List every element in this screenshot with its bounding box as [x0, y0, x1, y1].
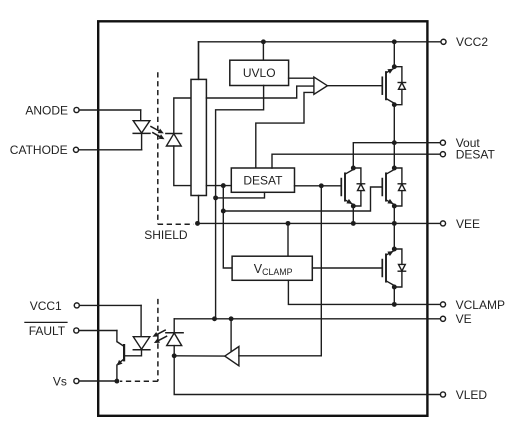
wire DESAT branch down to inverter	[320, 186, 322, 356]
node junction Vout rail	[392, 140, 397, 145]
node junction M3 gate line	[221, 209, 226, 214]
wire VE rail	[174, 318, 440, 320]
transistor Q1 fault output	[123, 344, 125, 361]
DESAT block	[231, 168, 294, 192]
MOSFET M4 clamp	[382, 247, 405, 290]
wire M1 drain	[393, 42, 395, 67]
amplifier block U1	[191, 79, 206, 195]
node junction VE to UVLO line	[212, 316, 217, 321]
pin FAULT	[74, 328, 79, 333]
MOSFET M2 desat pull-down	[341, 166, 364, 209]
wire DESAT bottom stub	[216, 192, 265, 198]
pin DESAT	[440, 152, 445, 157]
inverter U3	[225, 347, 239, 366]
svg-text:VEE: VEE	[456, 217, 480, 231]
MOSFET M3 pull-down	[382, 166, 405, 209]
pin VEE	[440, 221, 445, 226]
LED D1 input LED	[133, 121, 150, 133]
wire buffer U2 output to M1 gate	[327, 85, 382, 87]
svg-text:ANODE: ANODE	[25, 103, 68, 117]
wire PD2 to Q1 base	[125, 350, 141, 356]
svg-text:VLED: VLED	[456, 388, 488, 402]
svg-text:CATHODE: CATHODE	[10, 143, 68, 157]
wire VE to LED2	[173, 319, 175, 333]
node junction Vs emitter	[114, 379, 119, 384]
node junction top rail to M1	[392, 39, 397, 44]
shield dashed line lower	[157, 299, 159, 381]
svg-text:Vs: Vs	[53, 374, 67, 388]
light arrow 1	[150, 126, 161, 132]
light arrow 2	[152, 132, 162, 137]
wire amplifier output	[206, 86, 313, 98]
wire CATHODE lead	[141, 133, 143, 149]
pin VCLAMP	[440, 302, 445, 307]
photodiode PD1	[166, 133, 182, 135]
pin VCC2	[441, 39, 446, 44]
node junction LED2 inverter output	[172, 353, 177, 358]
wire amplifier top to VCC2 rail	[198, 42, 200, 80]
wire M4 source to VCLAMP rail	[393, 287, 395, 304]
pin VE	[440, 316, 445, 321]
wire M1 source to Vout	[393, 105, 395, 143]
wire M3 gate line	[223, 187, 382, 211]
node junction VCLAMP rail	[392, 302, 397, 307]
wire UVLO supply drop	[262, 42, 264, 60]
svg-text:VE: VE	[456, 312, 472, 326]
wire Q1 emitter to Vs	[116, 365, 118, 381]
node junction VEE shield	[195, 221, 200, 226]
node junction amp stub	[221, 183, 226, 188]
pin VLED	[440, 392, 445, 397]
wire M3 drain from Vout	[393, 143, 395, 168]
wire VCLAMP output to M4 gate	[312, 267, 382, 269]
node junction DESAT output branch	[319, 183, 324, 188]
wire VCC1 lead	[80, 304, 141, 306]
wire VCLAMP block bottom	[288, 280, 440, 304]
wire UVLO lower output	[216, 86, 264, 319]
wire ANODE lead	[79, 109, 141, 111]
svg-text:UVLO: UVLO	[243, 66, 276, 80]
wire VLED line	[174, 356, 440, 395]
pin VCC1	[74, 303, 79, 308]
photodiode PD2	[133, 337, 150, 350]
wire Vs lead	[80, 380, 117, 382]
node junction VE to inverter branch	[229, 316, 234, 321]
wire UVLO output to buffer	[289, 77, 314, 79]
wire inverter input	[239, 355, 321, 357]
light arrow 4	[157, 336, 167, 341]
MOSFET M1 pull-up	[382, 64, 405, 107]
UVLO block	[230, 60, 289, 85]
buffer U2	[314, 77, 328, 94]
wire inverter top branch	[230, 319, 232, 352]
wire VCC2 rail	[199, 41, 441, 43]
wire M4 drain from VEE	[393, 223, 395, 249]
node junction M2 source VEE	[351, 221, 356, 226]
light arrow 3	[156, 330, 166, 335]
wire VCLAMP left feed	[223, 186, 232, 268]
node junction VEE to VCLAMP block	[286, 221, 291, 226]
pin Vout	[440, 140, 445, 145]
svg-text:DESAT: DESAT	[456, 148, 496, 162]
wire DESAT output to M2 gate	[295, 185, 342, 187]
wire VEE to VCLAMP block top	[287, 223, 289, 256]
wire inverter output	[174, 355, 225, 357]
svg-text:SHIELD: SHIELD	[144, 228, 188, 242]
svg-text:FAULT: FAULT	[29, 324, 66, 338]
LED D2 feedback LED	[166, 332, 183, 334]
node junction top rail to UVLO	[261, 39, 266, 44]
wire FAULT lead	[80, 330, 117, 332]
svg-text:VCC1: VCC1	[30, 299, 62, 313]
wire VEE rail	[198, 222, 441, 224]
wire M2 source to VEE	[352, 206, 354, 223]
wire PD1 bracket	[174, 98, 191, 134]
pin CATHODE	[73, 147, 78, 152]
shield dashed line upper	[157, 72, 159, 224]
wire M3 source to VEE	[393, 206, 395, 223]
node junction DESAT bottom	[213, 195, 218, 200]
wire Vout rail	[394, 142, 440, 144]
svg-text:VCLAMP: VCLAMP	[456, 298, 505, 312]
pin ANODE	[74, 107, 79, 112]
wire LED2 anode to junction	[173, 346, 175, 356]
wire amplifier right stub to DESAT rail	[206, 185, 231, 187]
svg-text:VCC2: VCC2	[456, 35, 488, 49]
pin Vs	[74, 378, 79, 383]
wire DESAT feedback to buffer	[256, 92, 314, 168]
wire DESAT pin line	[272, 154, 440, 168]
node junction M3 source VEE	[392, 221, 397, 226]
svg-text:DESAT: DESAT	[243, 174, 283, 188]
wire amplifier bottom to VEE	[198, 196, 200, 224]
IC boundary box	[98, 21, 427, 416]
VCLAMP block	[232, 256, 312, 280]
